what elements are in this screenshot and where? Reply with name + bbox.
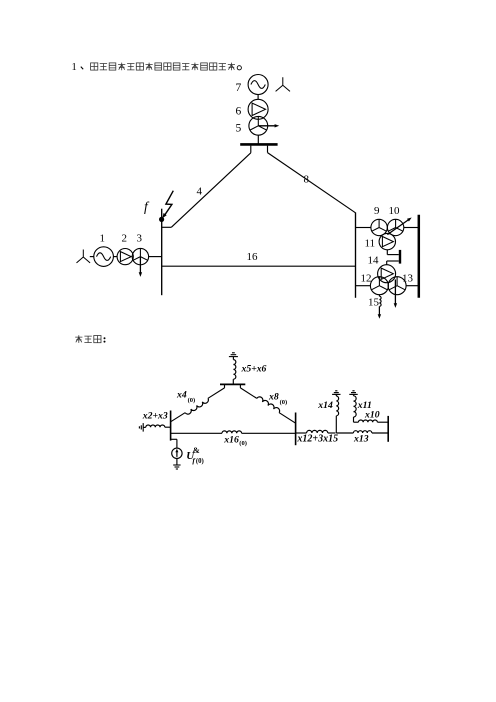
line 16 (left bus to middle bus) bbox=[162, 265, 356, 267]
bus (middle right) bbox=[355, 213, 357, 298]
wire left node to source bbox=[171, 438, 177, 440]
svg-text:x5+x6: x5+x6 bbox=[241, 364, 267, 375]
ground arrow of winding 10 bbox=[387, 220, 408, 235]
transformer winding 9 (wye) bbox=[371, 219, 387, 235]
svg-text:8: 8 bbox=[304, 174, 310, 186]
svg-text:(0): (0) bbox=[280, 399, 288, 406]
svg-text:f: f bbox=[144, 199, 150, 214]
svg-text:x16: x16 bbox=[223, 435, 239, 446]
svg-text:16: 16 bbox=[247, 251, 259, 263]
wire winding 11 to tertiary bar bbox=[386, 250, 388, 255]
bus (tertiary bar) bbox=[399, 250, 401, 264]
wire bus to winding 12 bbox=[356, 285, 371, 287]
tick right of top bar bbox=[239, 384, 241, 388]
svg-text:x10: x10 bbox=[364, 409, 380, 420]
svg-text:14: 14 bbox=[368, 255, 380, 267]
transformer winding 2 (delta) bbox=[117, 249, 133, 265]
title text: 1、画出下面电网不对称接地短路时零序网。 bbox=[72, 62, 242, 73]
wire winding 10 to right bus bbox=[404, 227, 419, 229]
reactor x4(0) (line 4 zero-seq) bbox=[208, 388, 225, 398]
transformer winding 13 (wye, grounded) bbox=[388, 277, 406, 295]
node bar (mid-right) bbox=[295, 413, 297, 446]
node bar (left) bbox=[170, 411, 172, 441]
ground (below source) bbox=[176, 459, 178, 465]
svg-text:15: 15 bbox=[368, 297, 380, 309]
svg-text:x2+x3: x2+x3 bbox=[142, 411, 168, 422]
svg-text:4: 4 bbox=[197, 186, 203, 198]
heading text: 零序网： bbox=[75, 335, 105, 343]
transformer winding 10 (wye, grounded) bbox=[387, 219, 403, 235]
svg-text:5: 5 bbox=[236, 123, 242, 135]
transformer winding 12 (wye, grounded via reactor) bbox=[370, 277, 388, 295]
reactor x5+x6 bbox=[233, 360, 235, 380]
svg-text:x8: x8 bbox=[268, 392, 279, 403]
svg-text:&: & bbox=[193, 445, 200, 455]
svg-text:10: 10 bbox=[389, 205, 401, 217]
wire bus to winding 9 bbox=[356, 227, 372, 229]
node bar (top) bbox=[220, 383, 245, 385]
svg-text:(0): (0) bbox=[239, 440, 247, 447]
reactor x14 bbox=[336, 396, 338, 416]
wire x2+x3 to left node bbox=[165, 426, 171, 428]
wire T5 to top bus bbox=[257, 135, 259, 144]
reactor x11 bbox=[354, 396, 357, 417]
reactor x12+3x15 bbox=[296, 432, 307, 434]
transformer winding 6 (delta) bbox=[248, 99, 268, 119]
svg-text:x13: x13 bbox=[353, 433, 369, 444]
reactor x2+x3 bbox=[146, 425, 165, 427]
line 8 (top bus to middle bus) bbox=[267, 146, 269, 153]
wye symbol (G1 neutral, ungrounded) bbox=[77, 250, 91, 263]
transformer winding 3 (wye, grounded) bbox=[132, 248, 148, 264]
ground arrow of winding 13 bbox=[394, 280, 396, 304]
wire junction to x14 bbox=[335, 416, 337, 433]
reactor x8(0) (line 8 zero-seq) bbox=[240, 388, 256, 399]
transformer winding 14 (delta) bbox=[378, 265, 396, 283]
ground arrow below reactor 15 bbox=[378, 306, 380, 314]
ground (above x11) bbox=[349, 393, 357, 395]
wire winding 13 to right bus bbox=[406, 285, 419, 287]
svg-text:12: 12 bbox=[361, 273, 372, 285]
bus (right load) bbox=[418, 215, 421, 298]
wire x5+x6 to top node bbox=[232, 379, 234, 384]
fault lightning arrow bbox=[165, 191, 174, 216]
wire winding 14 to tertiary bar bbox=[386, 261, 388, 265]
reactor x10 bbox=[353, 417, 355, 422]
transformer winding 5 (wye, grounded) bbox=[249, 116, 268, 135]
svg-text:(0): (0) bbox=[196, 458, 204, 465]
svg-text:13: 13 bbox=[402, 273, 414, 285]
svg-text:6: 6 bbox=[236, 106, 242, 118]
bus (left) bbox=[161, 209, 163, 296]
svg-text:2: 2 bbox=[122, 233, 128, 245]
svg-text:1: 1 bbox=[72, 62, 77, 73]
svg-text:11: 11 bbox=[365, 238, 376, 250]
line 4 (top bus to left bus) bbox=[250, 146, 252, 153]
svg-text:x12+3x15: x12+3x15 bbox=[296, 433, 338, 444]
wire T3 to left bus bbox=[149, 256, 162, 258]
ground (left of x2+x3) bbox=[142, 423, 144, 432]
node bar (far right) bbox=[387, 416, 389, 442]
source Uf(0) bbox=[172, 448, 182, 458]
ground (above x14) bbox=[332, 393, 340, 395]
wire wye to G1 bbox=[90, 256, 94, 258]
svg-text:x4: x4 bbox=[176, 390, 187, 401]
neutral reactor 15 bbox=[378, 295, 380, 297]
wye symbol (G7 neutral, ungrounded) bbox=[276, 77, 290, 91]
ground arrow of winding 5 bbox=[258, 125, 275, 127]
svg-text:3: 3 bbox=[137, 233, 143, 245]
svg-text:9: 9 bbox=[374, 205, 380, 217]
bus (top) bbox=[240, 143, 277, 146]
svg-text:1: 1 bbox=[100, 233, 106, 245]
ground arrow of winding 3 bbox=[139, 257, 141, 273]
wire G7 to T6 bbox=[257, 95, 259, 100]
reactor x16(0) (line 16 zero-seq) bbox=[171, 432, 222, 434]
svg-text:(0): (0) bbox=[188, 397, 196, 404]
reactor x13 bbox=[336, 432, 353, 434]
transformer winding 11 (delta) bbox=[379, 233, 395, 249]
wire G1 to T2 bbox=[113, 256, 117, 258]
svg-text:7: 7 bbox=[236, 82, 242, 94]
svg-text:x14: x14 bbox=[317, 400, 333, 411]
generator G1 bbox=[94, 247, 114, 267]
ground (top, above x5+x6) bbox=[229, 356, 238, 358]
generator G7 bbox=[248, 75, 268, 95]
fault point dot bbox=[159, 217, 164, 222]
tick left of top bar bbox=[224, 384, 226, 388]
